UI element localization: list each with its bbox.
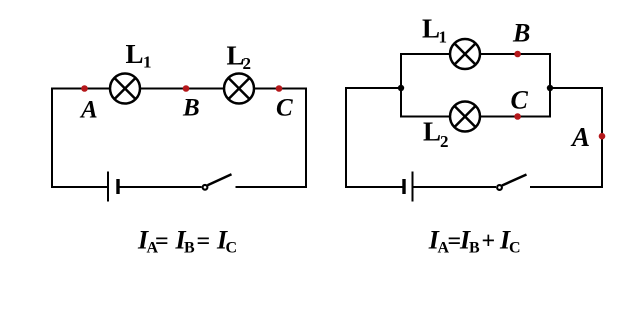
wire between lamp L1 and lamp L2 (141, 88, 224, 90)
wire from right junction to right vertical (550, 87, 602, 89)
wire bottom branch right segment (481, 116, 552, 118)
svg-text:=: = (155, 229, 169, 255)
wire from left vertical to branch junction (345, 87, 401, 89)
svg-text:C: C (226, 239, 238, 256)
wire right vertical (left circuit) (305, 89, 307, 188)
svg-text:1: 1 (143, 53, 152, 72)
node A (red dot, right circuit) (599, 133, 606, 140)
battery BT2 (right circuit) (404, 172, 413, 202)
svg-text:C: C (276, 94, 293, 121)
node C (red dot, left circuit) (276, 85, 283, 92)
node C (red dot, right circuit) (514, 113, 521, 120)
svg-text:1: 1 (439, 28, 448, 47)
wire top branch right segment (481, 53, 552, 55)
wire battery to switch (118, 186, 202, 188)
label L2 (left circuit) (227, 41, 252, 73)
wire top segment from left corner to lamp L1 (51, 88, 110, 90)
lamp L1 (right circuit) (450, 39, 480, 69)
svg-text:B: B (184, 239, 195, 256)
svg-text:A: A (570, 122, 590, 152)
wire bottom branch left segment (400, 116, 450, 118)
battery BT1 (left circuit) (108, 172, 118, 202)
label L1 (left circuit) (126, 39, 152, 71)
svg-text:B: B (512, 18, 530, 47)
svg-text:A: A (79, 96, 98, 123)
formula I_A = I_B = I_C (137, 226, 237, 257)
node B (red dot, right circuit) (514, 51, 521, 58)
wire bottom left to battery (51, 186, 108, 188)
wire bottom left to battery (right circuit) (345, 186, 404, 188)
svg-text:L: L (422, 13, 440, 43)
svg-text:2: 2 (243, 54, 252, 73)
junction dot right (right circuit) (547, 85, 553, 91)
node A (red dot, left circuit) (81, 85, 88, 92)
svg-text:C: C (511, 85, 529, 114)
wire from lamp L2 to right corner (255, 88, 308, 90)
svg-text:B: B (469, 239, 480, 256)
switch S2 (right circuit) (497, 175, 526, 190)
wire left vertical (right circuit) (345, 88, 347, 187)
svg-text:B: B (182, 94, 200, 121)
switch S1 (left circuit) (203, 174, 232, 190)
wire left vertical (left circuit) (51, 89, 53, 188)
wire right vertical (right circuit) (601, 87, 603, 187)
label L2 (right circuit) (423, 117, 449, 151)
svg-text:=: = (197, 229, 211, 255)
junction dot left (right circuit) (398, 85, 404, 91)
svg-text:+: + (482, 229, 496, 255)
lamp L2 (right circuit) (450, 102, 480, 132)
svg-text:C: C (509, 239, 521, 256)
lamp L2 (left circuit) (224, 74, 254, 104)
svg-text:2: 2 (440, 132, 449, 151)
wire branch box right vertical (549, 54, 551, 117)
svg-text:L: L (423, 117, 441, 147)
svg-text:L: L (126, 39, 144, 69)
wire branch box left vertical (400, 54, 402, 117)
wire switch contact to right corner (236, 186, 308, 188)
formula I_A = I_B + I_C (428, 226, 521, 257)
node B (red dot, left circuit) (183, 85, 190, 92)
lamp L1 (left circuit) (110, 74, 140, 104)
wire battery to switch (right circuit) (413, 186, 497, 188)
wire switch contact to right corner (right circuit) (530, 186, 603, 188)
label L1 (right circuit) (422, 13, 447, 46)
wire top branch left segment (400, 53, 450, 55)
